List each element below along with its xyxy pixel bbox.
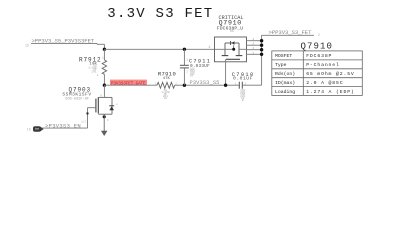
- wire drain bus vertical: [261, 35, 263, 85]
- body diode: [230, 41, 232, 45]
- svg-text:Q7910: Q7910: [301, 42, 334, 52]
- resistor R7912: [79, 49, 107, 85]
- node P3V3S3FET_GATE highlighted label: [110, 80, 147, 87]
- svg-text:3.3V S3 FET: 3.3V S3 FET: [107, 6, 213, 22]
- svg-text:2: 2: [252, 47, 254, 50]
- node gate junction dot: [103, 84, 106, 87]
- FET internals: [225, 42, 239, 44]
- junction dots on bus: [260, 39, 263, 42]
- svg-text:P3V3S3FET_GATE: P3V3S3FET_GATE: [111, 81, 146, 87]
- wire corner down to node A: [103, 44, 105, 49]
- wire from label to corner: [97, 43, 104, 45]
- wire top rail to FET: [104, 48, 214, 50]
- wire gate tail of Q7910 down: [225, 59, 227, 85]
- source feed inside box: [215, 48, 234, 50]
- svg-text:e: e: [116, 103, 118, 106]
- svg-text:U4: U4: [230, 29, 234, 33]
- table Q7910 info: [272, 42, 363, 96]
- svg-text:FDC638P: FDC638P: [306, 53, 332, 59]
- gate feed: [88, 107, 96, 109]
- svg-text:2.0 A @85C: 2.0 A @85C: [306, 80, 343, 86]
- wire cap to bus corner: [242, 84, 261, 86]
- svg-text:2: 2: [318, 33, 320, 37]
- svg-text:4: 4: [209, 45, 211, 49]
- svg-text:1.274 A (EDP): 1.274 A (EDP): [306, 89, 354, 95]
- junction dot C7911 top: [183, 48, 186, 51]
- Q7910 pins 4,3,2,1: [246, 41, 262, 55]
- svg-text:ID(max): ID(max): [275, 80, 295, 86]
- svg-text:P3V3S3_S5: P3V3S3_S5: [190, 80, 220, 86]
- svg-text:47K: 47K: [163, 77, 171, 81]
- svg-text:3: 3: [107, 119, 109, 122]
- svg-text:65 mOhm @2.5V: 65 mOhm @2.5V: [306, 71, 354, 77]
- drain wire down from gate net: [103, 85, 105, 97]
- resistor R7910: [155, 71, 177, 100]
- svg-text:1|C: 1|C: [81, 120, 87, 124]
- svg-text:1: 1: [235, 82, 237, 85]
- transistor Q7910 P-FET box: [215, 37, 247, 62]
- capacitor C7910: [232, 72, 255, 102]
- svg-text:2: 2: [186, 71, 188, 74]
- wire gate net to right: [104, 84, 157, 86]
- junction dot gate tail: [224, 84, 227, 87]
- svg-text:0.01UF: 0.01UF: [233, 76, 253, 82]
- body diode leg: [111, 97, 113, 114]
- junction dot C7911 bottom: [183, 84, 186, 87]
- node PP3V3_S5_P3V3S3FET label (top left): [25, 37, 97, 47]
- gate bar: [95, 99, 97, 113]
- drain link to pins: [239, 48, 246, 50]
- svg-text:4: 4: [252, 38, 254, 41]
- source rail: [98, 113, 112, 115]
- node A junction dot: [103, 48, 106, 51]
- svg-text:02: 02: [164, 97, 168, 100]
- capacitor C7911: [180, 49, 211, 85]
- svg-text:3: 3: [252, 43, 254, 46]
- component label Q7910 CRITICAL stack: [217, 15, 244, 33]
- drain rail: [98, 96, 112, 98]
- svg-text:02: 02: [190, 75, 194, 78]
- svg-text:1: 1: [102, 57, 104, 60]
- svg-text:MOSFET: MOSFET: [275, 53, 292, 59]
- channel bar: [97, 97, 99, 113]
- svg-text:P-Channel: P-Channel: [306, 62, 340, 68]
- svg-text:Type: Type: [275, 62, 287, 68]
- svg-text:>PP3V3_S3_FET: >PP3V3_S3_FET: [269, 29, 313, 36]
- transistor Q7903: [62, 85, 118, 128]
- junction dot source: [103, 115, 106, 118]
- svg-text:Loading: Loading: [275, 89, 295, 95]
- svg-text:1: 1: [252, 52, 254, 55]
- svg-text:201: 201: [92, 70, 97, 73]
- svg-text:1S: 1S: [25, 43, 29, 47]
- svg-text:Rds(on): Rds(on): [275, 71, 295, 77]
- svg-text:1S: 1S: [27, 128, 31, 132]
- svg-text:2: 2: [97, 74, 99, 77]
- svg-text:SOD-563F-AF: SOD-563F-AF: [65, 98, 89, 102]
- svg-text:1: 1: [186, 59, 188, 62]
- node P3V3S3_EN label with connector: [27, 122, 88, 131]
- node PP3V3_S3_FET label (top right): [262, 29, 320, 37]
- ground: [101, 114, 107, 136]
